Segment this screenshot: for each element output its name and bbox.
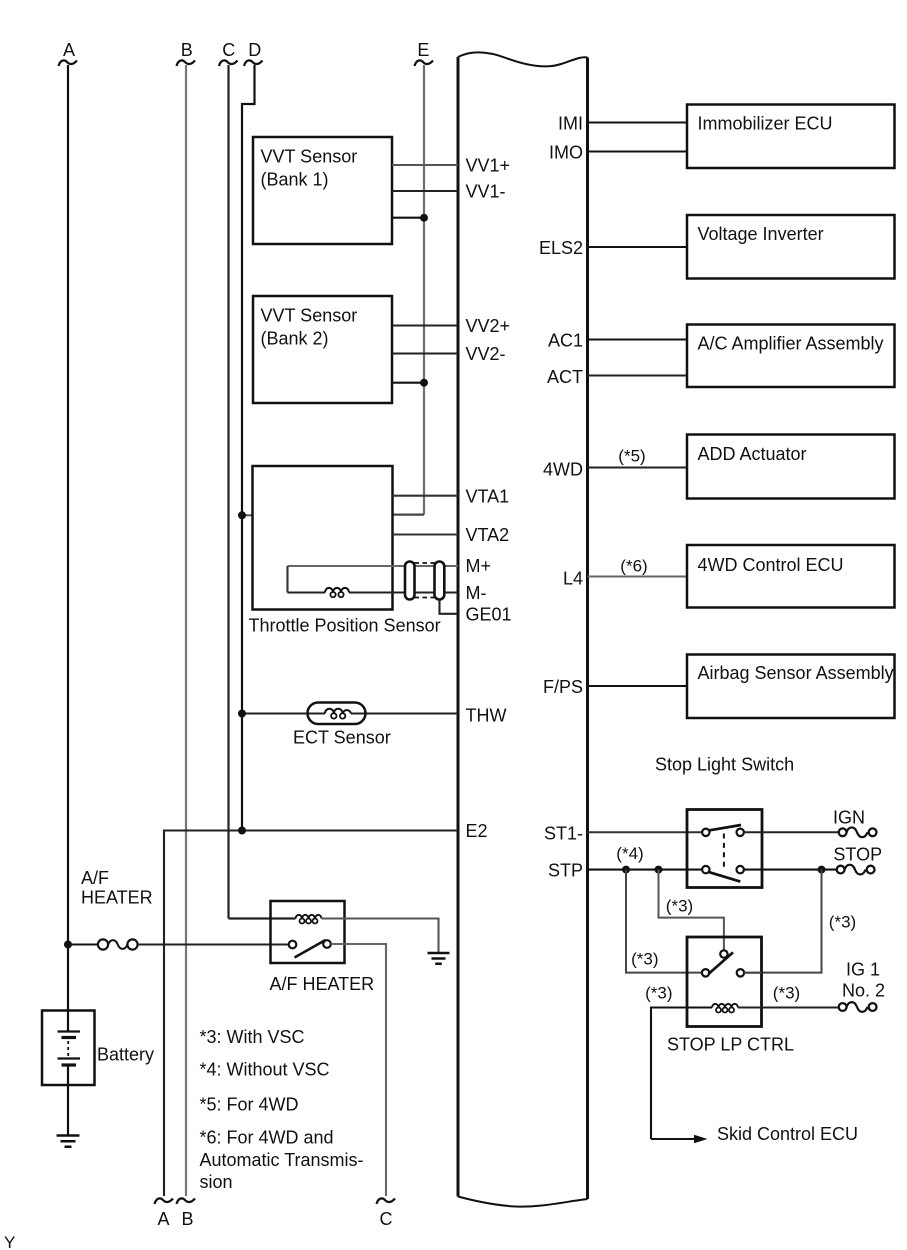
IGN connector [839, 828, 847, 836]
wire VVT1 pin3 to node E [392, 217, 424, 219]
wire VV2+ [392, 324, 458, 326]
junction dot STP branch3 [818, 866, 826, 874]
svg-text:VVT Sensor: VVT Sensor [261, 147, 358, 167]
svg-text:Airbag Sensor Assembly: Airbag Sensor Assembly [698, 663, 894, 683]
relay coil (STOP LP CTRL) [712, 1004, 738, 1008]
ground (battery) [57, 1136, 80, 1147]
svg-text:GE01: GE01 [466, 605, 512, 625]
A/C amplifier assembly box [687, 325, 895, 388]
wire C vertical to A/F heater relay coil [229, 65, 296, 919]
stop light switch blade top [710, 825, 742, 830]
stop light switch contacts bottom [702, 866, 709, 873]
wire VTA2 [393, 533, 459, 535]
svg-text:*6: For 4WD and: *6: For 4WD and [200, 1128, 334, 1148]
node A (bottom) [155, 1198, 174, 1204]
wire relay coil left [651, 1008, 712, 1140]
svg-text:No. 2: No. 2 [842, 981, 885, 1001]
ECM bus right edge [586, 58, 589, 1200]
svg-text:STOP: STOP [833, 845, 882, 865]
voltage inverter box [687, 215, 895, 279]
svg-text:(Bank 1): (Bank 1) [261, 170, 329, 190]
svg-text:Skid Control ECU: Skid Control ECU [717, 1124, 858, 1144]
wire 4WD [588, 467, 688, 469]
connector dashed outline top [415, 562, 435, 564]
battery box [42, 1011, 95, 1086]
wire battery to fuse [68, 943, 98, 945]
connector dashed outline bottom [415, 597, 435, 599]
wire relay switch to node C bottom [331, 944, 386, 1196]
svg-text:*3: With VSC: *3: With VSC [200, 1027, 305, 1047]
svg-text:(*3): (*3) [773, 984, 800, 1003]
IG1 connector [839, 1003, 847, 1011]
svg-text:Throttle Position Sensor: Throttle Position Sensor [249, 616, 441, 636]
ECT sensor coil [325, 709, 351, 714]
svg-text:A: A [157, 1209, 169, 1229]
wire GE01 shield stub [440, 600, 459, 614]
relay coil (A/F heater) [296, 915, 322, 919]
wire ST1- to switch [588, 831, 703, 833]
svg-text:M-: M- [466, 583, 487, 603]
wire relay coil to IG1 connector [738, 1007, 839, 1009]
wire E2 to bottom node A [164, 831, 458, 1197]
svg-text:4WD Control ECU: 4WD Control ECU [698, 555, 844, 575]
svg-text:Automatic Transmis-: Automatic Transmis- [200, 1150, 364, 1170]
svg-text:VV2-: VV2- [466, 344, 506, 364]
svg-text:A/F: A/F [81, 868, 109, 888]
connector half right (throttle) [435, 562, 445, 600]
wire ELS2 [588, 246, 688, 248]
relay switch contacts [702, 969, 709, 976]
connector half left (throttle) [405, 562, 415, 600]
4WD control ECU box [687, 545, 895, 608]
svg-text:IGN: IGN [833, 808, 865, 828]
wire STP branch2 to relay top contact [659, 870, 724, 950]
relay switch blade [708, 952, 733, 974]
svg-text:Voltage Inverter: Voltage Inverter [698, 224, 824, 244]
svg-text:STP: STP [548, 861, 583, 881]
ECM bus left edge [457, 57, 460, 1197]
ground (A/F heater relay) [428, 953, 450, 964]
svg-text:VTA1: VTA1 [466, 487, 510, 507]
wire E bottom into throttle sensor [393, 513, 425, 515]
stop light switch blade bottom [709, 872, 740, 881]
svg-text:4WD: 4WD [543, 460, 583, 480]
svg-text:E: E [417, 40, 429, 60]
svg-text:Immobilizer ECU: Immobilizer ECU [698, 114, 833, 134]
relay switch blade [295, 940, 326, 958]
wire L4 [588, 575, 688, 577]
svg-text:(*6): (*6) [620, 557, 647, 576]
svg-text:ACT: ACT [547, 367, 583, 387]
junction dot A/fuse [64, 941, 72, 949]
svg-text:E2: E2 [466, 821, 488, 841]
svg-text:THW: THW [466, 706, 507, 726]
svg-text:A/C Amplifier Assembly: A/C Amplifier Assembly [698, 334, 884, 354]
junction dot STP branch2 [655, 866, 663, 874]
fuse A/F heater [98, 939, 108, 949]
svg-text:(*3): (*3) [829, 913, 856, 932]
wire STP to switch [588, 869, 703, 871]
A/F HEATER relay box [271, 901, 345, 963]
svg-text:B: B [181, 1209, 193, 1229]
wire M riser inside throttle box [286, 566, 288, 593]
wire M- [288, 591, 459, 593]
svg-text:Stop Light Switch: Stop Light Switch [655, 755, 794, 775]
ADD actuator box [687, 435, 895, 499]
immobilizer ECU box [687, 105, 895, 169]
wire relay coil to ground [322, 919, 439, 953]
svg-text:C: C [380, 1209, 393, 1229]
svg-text:(*3): (*3) [631, 950, 658, 969]
wire IMI [588, 121, 688, 123]
ECM bus top torn edge [458, 52, 588, 66]
STOP LP CTRL relay box [687, 937, 762, 1027]
svg-text:VV2+: VV2+ [466, 316, 511, 336]
battery plates [58, 1030, 81, 1032]
svg-text:AC1: AC1 [548, 331, 583, 351]
svg-text:Battery: Battery [97, 1045, 154, 1065]
svg-text:HEATER: HEATER [81, 888, 153, 908]
relay top contact [720, 950, 727, 957]
svg-text:F/PS: F/PS [543, 677, 583, 697]
airbag sensor assembly box [687, 655, 895, 719]
stop light switch box [687, 810, 762, 888]
svg-text:IMI: IMI [558, 114, 583, 134]
svg-text:(Bank 2): (Bank 2) [261, 329, 329, 349]
svg-text:ST1-: ST1- [544, 824, 583, 844]
svg-text:*4: Without VSC: *4: Without VSC [200, 1060, 330, 1080]
wire VV2- [392, 352, 458, 354]
wire battery negative to ground [67, 1065, 69, 1135]
svg-text:A: A [63, 40, 75, 60]
svg-text:ADD Actuator: ADD Actuator [698, 444, 807, 464]
svg-text:M+: M+ [466, 556, 492, 576]
svg-text:VV1+: VV1+ [466, 156, 511, 176]
stop light switch contacts top [702, 829, 709, 836]
svg-text:ELS2: ELS2 [539, 238, 583, 258]
svg-text:A/F HEATER: A/F HEATER [270, 974, 375, 994]
svg-text:STOP LP CTRL: STOP LP CTRL [667, 1035, 794, 1055]
svg-text:L4: L4 [563, 569, 583, 589]
wire switch to STOP [744, 869, 837, 871]
junction dot STP branch1 [622, 866, 630, 874]
node D junction dot at throttle stub [238, 511, 246, 519]
svg-text:C: C [222, 40, 235, 60]
wire D vertical with jog [242, 65, 255, 831]
throttle position sensor box [253, 466, 393, 610]
wire VV1+ [392, 164, 458, 166]
relay switch contacts [289, 941, 297, 949]
svg-text:sion: sion [200, 1172, 233, 1192]
svg-text:VV1-: VV1- [466, 182, 506, 202]
throttle motor coil [325, 588, 349, 593]
svg-text:*5: For 4WD: *5: For 4WD [200, 1095, 299, 1115]
junction dot D/THW [238, 710, 246, 718]
wire switch to IGN [744, 831, 839, 833]
wire relay switch right exit [744, 972, 761, 974]
svg-text:(*3): (*3) [645, 984, 672, 1003]
wire IMO [588, 150, 688, 152]
wire fuse to relay switch [138, 943, 289, 945]
wire B vertical [185, 65, 187, 1196]
wire F/PS [588, 685, 688, 687]
node B (bottom) [177, 1198, 196, 1204]
wire VVT2 pin3 to node E [392, 382, 424, 384]
svg-text:Y: Y [4, 1233, 15, 1250]
STOP connector [837, 866, 845, 874]
wire VTA1 [393, 495, 459, 497]
svg-text:VVT Sensor: VVT Sensor [261, 306, 358, 326]
ECT sensor wire THW [242, 712, 458, 714]
svg-text:IG 1: IG 1 [846, 960, 880, 980]
wire A vertical [67, 65, 69, 1031]
svg-text:D: D [248, 40, 261, 60]
node C (bottom) [377, 1198, 396, 1204]
svg-text:(*3): (*3) [666, 897, 693, 916]
VVT sensor (Bank 2) box [253, 296, 392, 403]
svg-text:ECT Sensor: ECT Sensor [293, 728, 391, 748]
wire STP branch1 to relay [626, 870, 702, 973]
svg-text:IMO: IMO [549, 143, 583, 163]
junction dot VVT2/E [420, 379, 428, 387]
wire STP branch3 to relay right contact [744, 870, 821, 973]
junction dot D/E2 [238, 827, 246, 835]
svg-text:(*5): (*5) [618, 447, 645, 466]
ECM bus bottom torn edge [458, 1197, 588, 1207]
svg-text:B: B [181, 40, 193, 60]
ECT sensor body [308, 703, 366, 725]
wire stub D to throttle sensor [242, 514, 253, 516]
svg-text:(*4): (*4) [616, 844, 643, 863]
wire M+ [288, 565, 459, 567]
stop light switch dashed link [723, 834, 725, 870]
wire AC1 [588, 338, 688, 340]
svg-text:VTA2: VTA2 [466, 525, 510, 545]
wire VV1- [392, 190, 458, 192]
VVT sensor (Bank 1) box [253, 137, 392, 244]
wire E vertical [423, 65, 425, 515]
wire to skid control ECU with arrow [651, 1138, 696, 1140]
wire ACT [588, 375, 688, 377]
junction dot VVT1/E [420, 214, 428, 222]
